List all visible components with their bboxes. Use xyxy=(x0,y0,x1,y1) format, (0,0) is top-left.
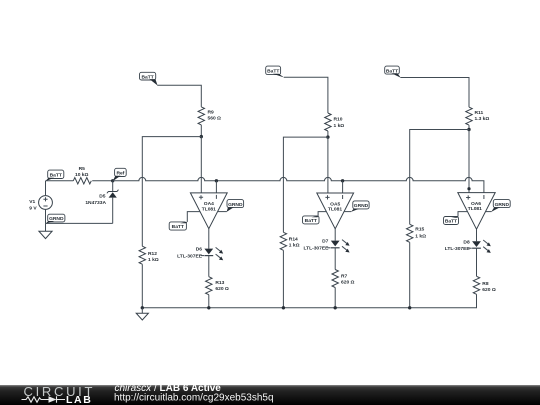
svg-text:GRND: GRND xyxy=(354,203,369,209)
net flag BaTT (V1) xyxy=(45,170,63,181)
svg-text:BaTT: BaTT xyxy=(50,173,62,179)
wire R7 to rail xyxy=(334,288,336,308)
resistor R12 1k xyxy=(139,246,145,264)
wire BaTT to R9 xyxy=(157,85,201,107)
LED D8 LTL-307EE xyxy=(469,240,491,253)
voltage source V1 xyxy=(39,181,53,224)
svg-text:1.3 kΩ: 1.3 kΩ xyxy=(475,116,490,122)
wire OA6 output xyxy=(476,229,478,241)
wire R13 to rail xyxy=(208,295,210,308)
node dot OA5 minus xyxy=(341,179,344,182)
svg-text:1 kΩ: 1 kΩ xyxy=(334,123,345,129)
wire OA5 output xyxy=(334,229,336,241)
resistor R7 620 xyxy=(332,270,338,288)
logo squiggle xyxy=(22,396,66,402)
op-amp OA5 TL081 xyxy=(317,193,354,229)
svg-text:620 Ω: 620 Ω xyxy=(482,287,496,293)
svg-text:OA5: OA5 xyxy=(330,201,340,207)
svg-text:9 V: 9 V xyxy=(29,206,37,212)
node A junction dot xyxy=(200,135,203,138)
wire OA4 V- pin xyxy=(218,211,227,213)
wire bottom V1 to D5 xyxy=(46,222,113,224)
svg-text:R14: R14 xyxy=(289,236,298,242)
svg-text:D5: D5 xyxy=(99,193,106,199)
svg-text:LAB: LAB xyxy=(66,394,92,405)
rail junction dot R14 xyxy=(282,306,285,309)
node Ref junction dot xyxy=(111,179,114,182)
LED D7 LTL-307EE xyxy=(327,240,349,253)
ground rail xyxy=(142,307,409,309)
rail junction dot R15 xyxy=(408,306,411,309)
svg-text:R7: R7 xyxy=(341,273,348,279)
svg-text:10 kΩ: 10 kΩ xyxy=(75,172,89,178)
rail junction dot R12 xyxy=(141,306,144,309)
svg-text:R11: R11 xyxy=(475,110,484,116)
op-amp OA4 TL081 xyxy=(190,193,227,229)
wire D6 to R13 xyxy=(208,256,210,277)
svg-text:TL081: TL081 xyxy=(328,207,342,213)
net flag BaTT (OA4) xyxy=(169,222,187,231)
svg-text:GRND: GRND xyxy=(228,202,243,208)
wire R14 to rail xyxy=(282,250,284,307)
wire D7 to R7 xyxy=(334,248,336,270)
node dot OA4 minus xyxy=(215,179,218,182)
svg-text:TL081: TL081 xyxy=(202,206,216,212)
svg-text:1 kΩ: 1 kΩ xyxy=(148,257,159,263)
wire jog node A to R12 column xyxy=(142,137,201,247)
resistor R11 1.3k xyxy=(466,107,472,125)
svg-text:R10: R10 xyxy=(334,116,343,122)
net flag GRND (OA4) xyxy=(227,200,244,212)
wire R8 to rail xyxy=(410,294,477,308)
net flag Ref xyxy=(113,168,127,181)
svg-text:560 Ω: 560 Ω xyxy=(208,115,222,121)
svg-text:BaTT: BaTT xyxy=(267,69,279,75)
wire minus input OA5 xyxy=(342,181,344,193)
svg-text:BaTT: BaTT xyxy=(172,224,184,230)
svg-text:LTL-307EE: LTL-307EE xyxy=(177,253,203,259)
svg-text:1N4733A: 1N4733A xyxy=(85,200,106,206)
node B junction dot xyxy=(326,135,329,138)
svg-text:http://circuitlab.com/cg29xeb5: http://circuitlab.com/cg29xeb53sh5q xyxy=(114,392,274,403)
svg-text:LTL-307EE: LTL-307EE xyxy=(303,246,329,252)
wire R10 to node xyxy=(327,131,329,137)
svg-text:R8: R8 xyxy=(482,281,489,287)
wire OA5 V- pin xyxy=(344,211,351,213)
svg-text:LTL-307EE: LTL-307EE xyxy=(445,246,471,252)
node C junction dot xyxy=(467,128,470,131)
svg-text:R9: R9 xyxy=(208,109,215,115)
wire OA4 output xyxy=(208,229,210,249)
resistor R8 620 xyxy=(473,276,479,294)
wire BaTT to R10 xyxy=(284,77,328,113)
rail junction dot R7 xyxy=(334,306,337,309)
ground (rail) xyxy=(136,308,148,320)
bus wire Ref line xyxy=(113,177,484,192)
wire R5 to Ref node xyxy=(92,180,113,182)
ground (V1) xyxy=(39,223,52,238)
wire OA6 V+ pin xyxy=(458,212,468,217)
wire BaTT to R11 xyxy=(401,78,470,108)
zener diode D5 1N4733A xyxy=(107,181,119,224)
svg-text:1 kΩ: 1 kΩ xyxy=(289,243,300,249)
svg-text:TL081: TL081 xyxy=(468,206,482,212)
op-amp OA6 TL081 xyxy=(458,193,495,230)
wire jog node C to R15 column xyxy=(410,130,469,225)
wire R11 to node xyxy=(468,125,470,129)
wire R12 to rail xyxy=(141,264,143,308)
svg-text:R13: R13 xyxy=(215,280,224,286)
wire R9 to node xyxy=(200,125,202,137)
svg-text:D6: D6 xyxy=(196,247,203,253)
LED D6 LTL-307EE xyxy=(201,247,223,260)
wire OA5 V+ pin xyxy=(318,212,326,216)
net flag BaTT (R9) xyxy=(140,72,158,85)
wire V1 to R5 xyxy=(46,180,74,182)
net flag BaTT (OA5) xyxy=(303,216,320,224)
resistor R9 560 xyxy=(198,107,204,125)
svg-text:1 kΩ: 1 kΩ xyxy=(415,234,426,240)
resistor R13 620 xyxy=(206,277,212,295)
wire plus input OA5 xyxy=(327,137,329,193)
wire minus input OA4 xyxy=(215,181,217,193)
net flag GRND (OA5) xyxy=(351,201,369,212)
svg-text:620 Ω: 620 Ω xyxy=(215,286,229,292)
resistor R10 1k xyxy=(325,113,331,131)
wire OA6 V- pin xyxy=(486,211,492,213)
net flag BaTT (OA6) xyxy=(444,216,459,224)
svg-text:GRND: GRND xyxy=(495,202,510,208)
resistor R15 1k xyxy=(407,224,413,242)
svg-text:D8: D8 xyxy=(463,239,470,245)
net flag BaTT (R10) xyxy=(266,66,285,77)
svg-text:620 Ω: 620 Ω xyxy=(341,279,355,285)
wire R15 to rail xyxy=(409,242,411,307)
svg-text:R5: R5 xyxy=(79,166,86,172)
rail junction dot R13 xyxy=(207,306,210,309)
svg-text:Ref: Ref xyxy=(116,171,124,177)
net flag GRND (V1) xyxy=(45,214,65,224)
wire plus input OA6 xyxy=(468,130,470,193)
svg-text:OA6: OA6 xyxy=(471,201,481,207)
resistor R5 xyxy=(73,178,91,184)
wire D8 to R8 xyxy=(476,248,478,276)
wire jog node B to R14 column xyxy=(283,137,328,232)
svg-text:V1: V1 xyxy=(29,199,35,205)
svg-text:R15: R15 xyxy=(415,227,424,233)
svg-text:D7: D7 xyxy=(322,239,329,245)
net flag GRND (OA6) xyxy=(491,200,510,212)
net flag BaTT (R11) xyxy=(385,66,401,78)
resistor R14 1k xyxy=(280,232,286,250)
svg-text:OA4: OA4 xyxy=(204,201,214,207)
svg-text:BaTT: BaTT xyxy=(445,219,457,225)
svg-text:R12: R12 xyxy=(148,251,157,257)
node dot on OA6 plus wire xyxy=(467,187,470,190)
wire plus input OA4 xyxy=(200,137,202,193)
svg-text:BaTT: BaTT xyxy=(305,218,317,224)
wire OA4 V+ pin xyxy=(187,212,200,222)
footer bar xyxy=(0,385,540,405)
